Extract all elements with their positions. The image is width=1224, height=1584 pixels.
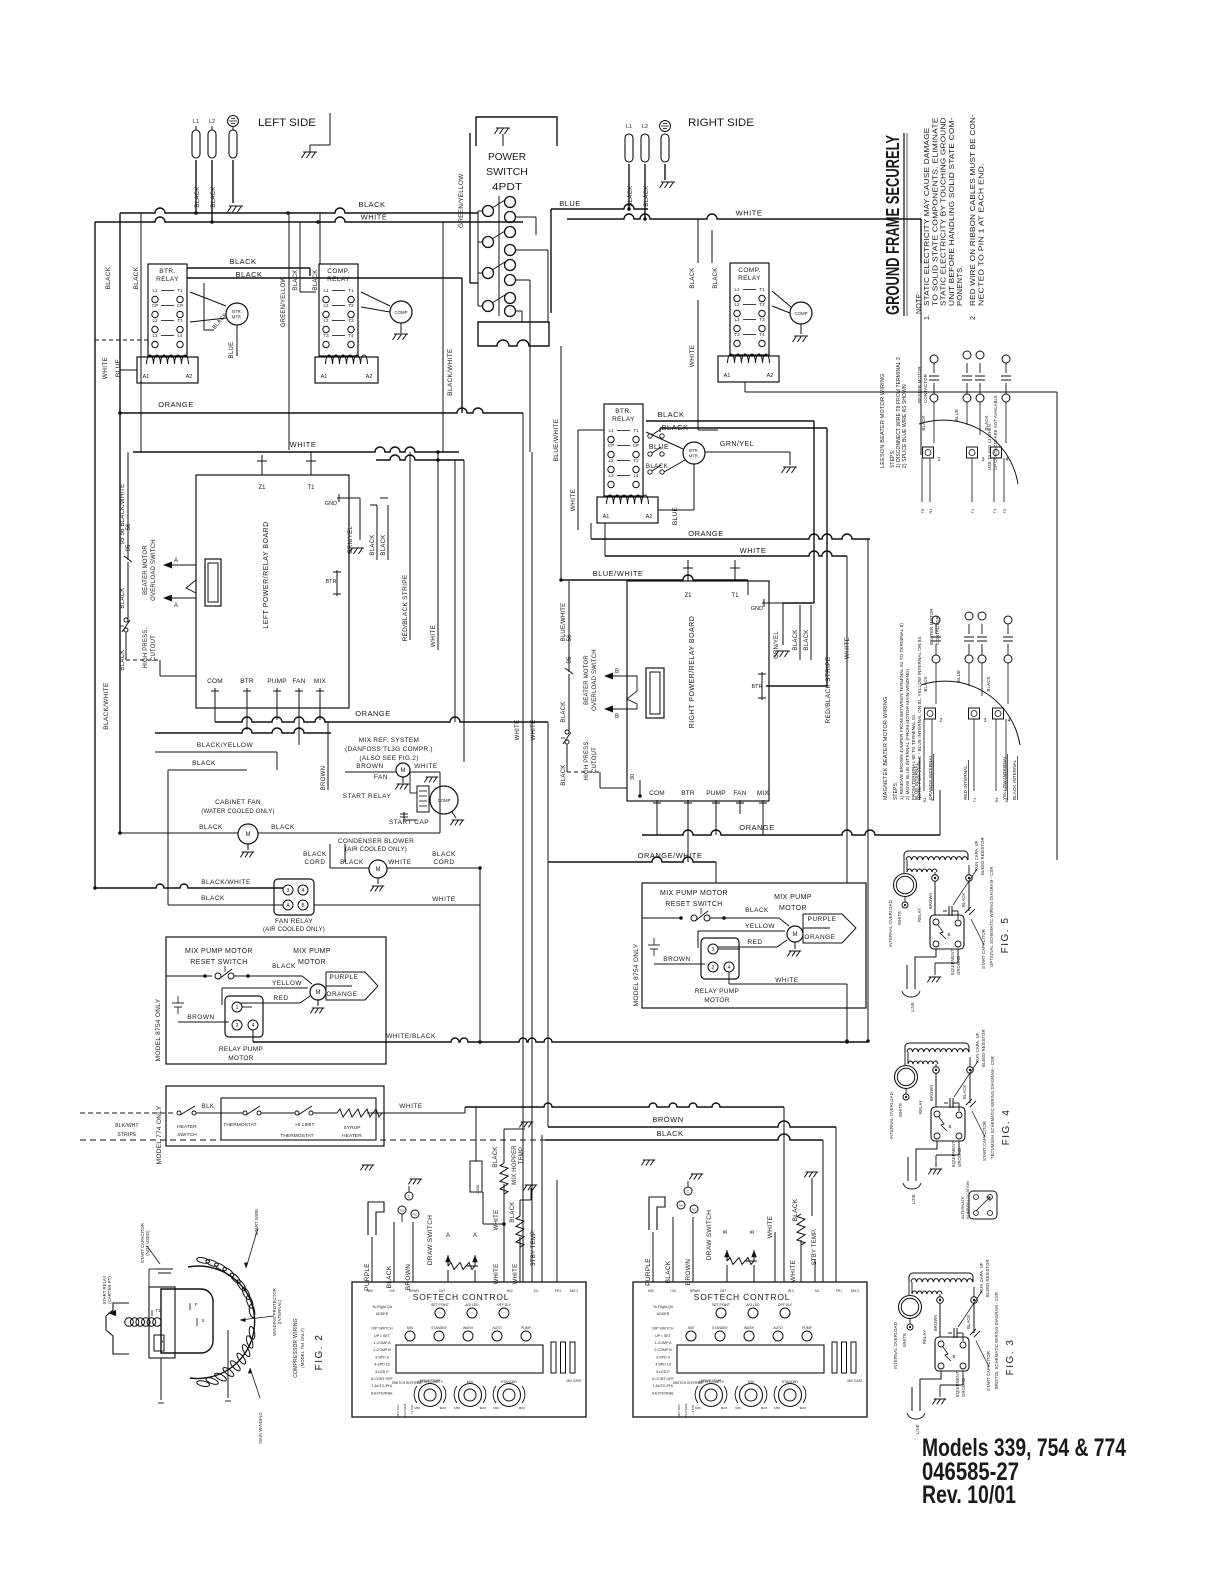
- svg-text:WASH: WASH: [744, 1326, 755, 1330]
- svg-text:L2: L2: [152, 318, 158, 323]
- svg-text:MAX: MAX: [480, 1406, 487, 1410]
- svg-text:1.: 1.: [924, 314, 931, 320]
- svg-text:30: 30: [630, 774, 636, 780]
- svg-text:BLUE: BLUE: [956, 670, 961, 682]
- high press cutout switch (left): [124, 618, 128, 622]
- fig4 leader start capacitor: [972, 1111, 985, 1137]
- svg-text:RESET SWITCH: RESET SWITCH: [190, 959, 248, 966]
- svg-text:DRAW SWITCH: DRAW SWITCH: [427, 1215, 434, 1265]
- fig5 white lead curve: [904, 907, 906, 909]
- svg-text:UNIT BEFORE HANDLING SOLID STA: UNIT BEFORE HANDLING SOLID STATE COM-: [949, 117, 956, 306]
- wire B arrows link: [613, 676, 637, 709]
- svg-text:WHITE: WHITE: [414, 763, 438, 770]
- wire extra feeds (left softech): [541, 1135, 543, 1282]
- ground terminal symbol (right supply): [660, 121, 671, 132]
- svg-text:BLACK: BLACK: [303, 851, 327, 858]
- svg-text:MTR.: MTR.: [689, 454, 699, 459]
- contactor arc (magnetek): [921, 681, 1020, 745]
- svg-text:CNT: CNT: [720, 1289, 727, 1293]
- svg-text:T5: T5: [1002, 508, 1007, 513]
- svg-text:C: C: [408, 1194, 411, 1199]
- svg-text:OUTSIDE: OUTSIDE: [403, 1403, 407, 1416]
- wire right bus verticals: [867, 539, 869, 1041]
- fig3 run winding coil band: [909, 1273, 973, 1282]
- svg-text:2: 2: [236, 1023, 239, 1029]
- wire BLACK top bus: [120, 208, 478, 213]
- svg-text:W.C: W.C: [507, 1289, 514, 1293]
- svg-text:PUMP: PUMP: [267, 678, 287, 685]
- svg-text:T2: T2: [348, 303, 354, 308]
- svg-text:5-LED P: 5-LED P: [375, 1370, 389, 1374]
- svg-text:MAX: MAX: [800, 1406, 807, 1410]
- svg-text:To-Flight QA: To-Flight QA: [653, 1305, 674, 1309]
- svg-text:3: 3: [712, 947, 715, 953]
- wire orange lower pair (left): [155, 728, 331, 733]
- svg-text:A1: A1: [724, 373, 731, 379]
- svg-text:(MODEL 754 ONLY): (MODEL 754 ONLY): [300, 1328, 305, 1368]
- wire red (right): [718, 946, 777, 948]
- wire overload drop (left): [127, 452, 129, 552]
- fig4 motor circle: [895, 1066, 918, 1089]
- contactor contact squares (magnetek): [925, 708, 936, 719]
- svg-text:W.C: W.C: [788, 1289, 795, 1293]
- wire orange/white: [548, 857, 716, 862]
- svg-text:RELAY: RELAY: [922, 1330, 927, 1344]
- svg-text:MIX INTL: MIX INTL: [396, 1403, 400, 1416]
- fig2 inner housing: [161, 1289, 213, 1353]
- fig4 run capacitor: [944, 1102, 948, 1104]
- contactor jumper wires (magnetek): [936, 663, 969, 674]
- svg-text:MIX HOPPER: MIX HOPPER: [512, 1145, 518, 1185]
- wire board outputs down: [214, 702, 216, 720]
- svg-text:L2: L2: [209, 119, 215, 125]
- ground (condenser blower): [377, 878, 379, 884]
- draw switch contacts (right): [684, 1187, 692, 1195]
- connector B arrows (right board ribbon): [604, 673, 613, 680]
- svg-text:START RELAY: START RELAY: [343, 793, 392, 800]
- fig4 brown lead: [935, 1073, 937, 1107]
- svg-text:BLACK: BLACK: [510, 1201, 516, 1222]
- svg-text:RED/BLACK STRIPE: RED/BLACK STRIPE: [402, 574, 409, 641]
- motor COMP (left): [390, 301, 412, 323]
- wire right board blacks: [799, 605, 801, 660]
- svg-text:BLACK: BLACK: [966, 1315, 971, 1329]
- fig4 white lead curve: [905, 1099, 907, 1101]
- svg-text:8-EXTERNAL: 8-EXTERNAL: [371, 1391, 393, 1395]
- svg-text:2) MOVE BLUE INTERNAL (FROM MO: 2) MOVE BLUE INTERNAL (FROM MOTOR MAIN W…: [905, 668, 910, 800]
- svg-text:4: 4: [252, 1023, 255, 1029]
- svg-text:MODEL 774 ONLY: MODEL 774 ONLY: [156, 1105, 163, 1164]
- svg-text:BLEED RESISTOR: BLEED RESISTOR: [980, 837, 985, 875]
- wire right L2 drop: [644, 164, 646, 219]
- svg-text:5-LED P: 5-LED P: [656, 1370, 670, 1374]
- svg-text:MIX: MIX: [688, 1326, 695, 1330]
- svg-text:SOFTECH CONTROL: SOFTECH CONTROL: [413, 1292, 510, 1302]
- ground (cabinet fan): [247, 844, 249, 850]
- svg-text:4: 4: [728, 965, 731, 971]
- overload switch symbol (right): [568, 664, 570, 672]
- svg-text:BROWN: BROWN: [187, 1014, 214, 1021]
- softech right LCD window: [677, 1345, 824, 1373]
- svg-text:MIX: MIX: [314, 678, 327, 685]
- svg-text:56: 56: [567, 634, 573, 641]
- svg-text:NO: NO: [400, 1209, 405, 1213]
- wire WHITE mid bus: [133, 447, 459, 452]
- contactor arc (leeson): [919, 420, 1018, 484]
- wire right cutout link: [566, 744, 568, 772]
- svg-text:NOTE:: NOTE:: [916, 291, 923, 314]
- svg-text:SWITCH: SWITCH: [486, 166, 528, 178]
- fig2 start relay coil spring: [125, 1318, 134, 1327]
- svg-text:3: 3: [982, 457, 985, 463]
- svg-text:GRN/YEL: GRN/YEL: [720, 441, 754, 448]
- power switch blade bar: [498, 196, 500, 316]
- svg-text:MIN: MIN: [414, 1406, 420, 1410]
- svg-text:To-Flight QA: To-Flight QA: [372, 1305, 393, 1309]
- wire A drops (right): [726, 1265, 728, 1282]
- svg-text:C: C: [687, 1189, 690, 1194]
- alternate number location box (fig4): [969, 1191, 997, 1219]
- svg-text:BTR: BTR: [326, 579, 337, 585]
- svg-text:8-EXTERNAL: 8-EXTERNAL: [652, 1391, 674, 1395]
- motor BTR MTR (left): [226, 303, 248, 325]
- svg-text:BLACK: BLACK: [120, 649, 126, 670]
- svg-text:A: A: [446, 1233, 450, 1239]
- svg-text:L1: L1: [626, 124, 632, 130]
- motor BTR MTR (right): [683, 442, 705, 464]
- wire red (left): [241, 1002, 300, 1004]
- connector A arrows (left board ribbon): [163, 562, 172, 569]
- svg-text:START CAPACITOR: START CAPACITOR: [981, 929, 986, 969]
- svg-text:UP = SET: UP = SET: [655, 1334, 672, 1338]
- fig4 start winding scallops: [908, 1061, 938, 1064]
- svg-text:R1: R1: [928, 508, 933, 514]
- svg-text:BLACK: BLACK: [340, 859, 364, 866]
- svg-text:ORANGE INTERNAL: ORANGE INTERNAL: [928, 754, 933, 800]
- svg-text:WHITE: WHITE: [432, 896, 456, 903]
- svg-text:OFF DLY: OFF DLY: [497, 1303, 512, 1307]
- svg-text:WHITE: WHITE: [290, 440, 317, 449]
- svg-text:MAIN WINDING: MAIN WINDING: [258, 1412, 263, 1443]
- resistor between A arrows (right): [726, 1250, 728, 1261]
- svg-text:2) SPLICE BLUE WIRE AS SHOWN: 2) SPLICE BLUE WIRE AS SHOWN: [902, 384, 908, 468]
- svg-text:1: 1: [236, 1005, 239, 1011]
- svg-text:POWER: POWER: [488, 151, 526, 163]
- svg-text:FAN: FAN: [374, 774, 388, 781]
- svg-text:A: A: [473, 1233, 477, 1239]
- svg-text:RED: RED: [273, 995, 288, 1002]
- svg-text:BLACK: BLACK: [644, 185, 650, 206]
- svg-text:BLACK: BLACK: [646, 464, 668, 470]
- wire black/yellow: [155, 751, 277, 753]
- wire green/yellow mid drop: [288, 213, 290, 450]
- svg-text:BLACK: BLACK: [358, 200, 385, 209]
- svg-text:B: B: [948, 1124, 951, 1129]
- wire relay 3 to red: [718, 948, 740, 950]
- svg-text:UP = SET: UP = SET: [374, 1334, 391, 1338]
- svg-text:BLACK/WHITE: BLACK/WHITE: [201, 879, 251, 886]
- wire right gnd drop: [664, 164, 666, 180]
- svg-text:BLEED RESISTOR: BLEED RESISTOR: [985, 1259, 990, 1297]
- svg-text:GREEN/YELLOW: GREEN/YELLOW: [458, 173, 465, 228]
- svg-text:BLACK: BLACK: [657, 410, 684, 419]
- fig3 leader run capacitor: [958, 1291, 982, 1327]
- wire BLUE right bus: [551, 204, 648, 209]
- wire blower cord drop: [344, 844, 346, 862]
- svg-text:A2: A2: [767, 373, 774, 379]
- svg-text:L2: L2: [608, 458, 614, 463]
- fig2 main winding coil (lower): [196, 1380, 210, 1388]
- svg-text:LINE: LINE: [911, 1194, 916, 1204]
- wire BROWN bottom bus: [548, 1121, 836, 1127]
- svg-text:3: 3: [984, 718, 987, 724]
- ground (power switch frame): [495, 128, 511, 134]
- wire ORANGE right bus: [591, 534, 870, 539]
- svg-text:L1: L1: [152, 288, 158, 293]
- softech right knobs: [700, 1384, 723, 1407]
- wire white fan relay out: [314, 904, 480, 906]
- svg-text:A2: A2: [646, 514, 653, 520]
- svg-text:RESET SWITCH: RESET SWITCH: [665, 901, 723, 908]
- wire condenser vertical: [439, 790, 441, 833]
- wire right comp vertical: [697, 300, 699, 430]
- svg-text:BLACK: BLACK: [561, 764, 567, 785]
- svg-text:FAN: FAN: [292, 678, 305, 685]
- fuse F2 (left L2): [208, 130, 216, 158]
- svg-text:B: B: [952, 1354, 955, 1359]
- svg-text:M: M: [793, 932, 798, 938]
- fig2 start capacitor: [156, 1268, 173, 1270]
- svg-text:CONTACTOR: CONTACTOR: [923, 373, 928, 403]
- svg-text:RIGHT POWER/RELAY BOARD: RIGHT POWER/RELAY BOARD: [689, 616, 696, 729]
- wire relay 1 to red: [242, 1006, 252, 1008]
- wire white down (left): [503, 1184, 505, 1282]
- power switch bottom box: [478, 322, 549, 346]
- softech left LCD window: [396, 1345, 543, 1373]
- condenser blower motor M: [369, 860, 387, 878]
- svg-text:FR1: FR1: [555, 1289, 561, 1293]
- ground (right btr): [782, 467, 798, 473]
- svg-text:START CAPACITOR: START CAPACITOR: [982, 1121, 987, 1161]
- svg-text:MOTOR: MOTOR: [228, 1055, 254, 1062]
- fuse F3 (left gnd lead): [229, 130, 237, 158]
- thermistor MIX HOPPER TEMP (left): [500, 1163, 508, 1194]
- svg-text:THERMOSTAT: THERMOSTAT: [223, 1122, 256, 1128]
- svg-text:COM: COM: [649, 790, 665, 797]
- ground (right draw sw 2): [689, 1174, 703, 1179]
- svg-text:CONDENSER BLOWER: CONDENSER BLOWER: [338, 838, 414, 845]
- svg-text:MIX: MIX: [757, 790, 770, 797]
- 240K resistor box (left): [470, 1161, 482, 1192]
- svg-text:ADDER: ADDER: [376, 1312, 389, 1316]
- svg-text:7-AUTO-PHL: 7-AUTO-PHL: [371, 1384, 392, 1388]
- contactor capacitor bars (magnetek): [935, 624, 937, 634]
- fig5 equipment ground wire: [934, 963, 936, 975]
- svg-text:MIX REF. SYSTEM: MIX REF. SYSTEM: [359, 737, 419, 744]
- svg-text:BROWN: BROWN: [321, 766, 327, 791]
- contactor capacitor bars (leeson): [933, 363, 935, 373]
- svg-text:TECUMSEH SCHEMATIC WIRING DIAG: TECUMSEH SCHEMATIC WIRING DIAGRAM - CSR: [990, 1056, 995, 1159]
- svg-text:WHITE: WHITE: [844, 636, 851, 659]
- wire white right btr: [577, 430, 579, 530]
- ground (left draw sw 2): [408, 1179, 422, 1184]
- svg-text:T4: T4: [992, 508, 997, 513]
- svg-text:RELAY: RELAY: [917, 908, 922, 922]
- svg-text:INTERNAL OVERLOAD: INTERNAL OVERLOAD: [888, 900, 893, 947]
- svg-text:RELAY: RELAY: [327, 276, 350, 283]
- svg-text:ORANGE: ORANGE: [739, 823, 775, 832]
- svg-text:BLACK: BLACK: [199, 824, 223, 831]
- svg-text:(CARTER PT): (CARTER PT): [107, 1276, 112, 1304]
- svg-text:T1: T1: [972, 797, 977, 802]
- svg-text:SOFTECH CONTROL: SOFTECH CONTROL: [694, 1292, 791, 1302]
- resistor between A arrows (left): [447, 1255, 449, 1266]
- svg-text:BLUE: BLUE: [115, 359, 122, 378]
- fig4 motor bottom terminal: [905, 1089, 907, 1095]
- svg-text:BLACK: BLACK: [962, 1085, 967, 1099]
- wire btr mtr drop: [236, 325, 238, 356]
- svg-text:BLACK: BLACK: [105, 266, 112, 289]
- wire grn/yel to board gnd: [359, 498, 361, 540]
- svg-text:RELAY: RELAY: [156, 276, 179, 283]
- svg-text:BTR.: BTR.: [689, 448, 699, 453]
- svg-text:RED: RED: [747, 939, 762, 946]
- fig2 wire down 1: [160, 1358, 162, 1400]
- svg-text:BEATER MOTOR: BEATER MOTOR: [917, 366, 922, 403]
- svg-text:BLUE: BLUE: [954, 409, 959, 421]
- stby thermistor (left): [516, 1216, 524, 1247]
- wire orange below right board: [642, 830, 940, 835]
- svg-text:BLUE/WHITE: BLUE/WHITE: [553, 418, 560, 461]
- fig3 motor circle: [899, 1296, 922, 1319]
- svg-text:84: 84: [994, 797, 999, 802]
- svg-text:HIGH PRESS.: HIGH PRESS.: [143, 627, 149, 668]
- fig5 leader start capacitor: [971, 919, 984, 945]
- svg-text:6-CONT OFF: 6-CONT OFF: [371, 1377, 393, 1381]
- svg-text:BLUE: BLUE: [672, 507, 679, 526]
- svg-text:BLACK: BLACK: [229, 257, 256, 266]
- heater switch: [80, 1112, 176, 1114]
- svg-text:T1: T1: [177, 288, 183, 293]
- svg-text:FIG. 3: FIG. 3: [1005, 1339, 1016, 1376]
- svg-text:BTR: BTR: [752, 684, 763, 690]
- fig3 start capacitor marks: [970, 1329, 980, 1337]
- fig5 run winding coil band: [904, 851, 968, 860]
- svg-text:M: M: [316, 990, 321, 996]
- svg-text:GND: GND: [751, 606, 763, 612]
- svg-text:B: B: [160, 1339, 163, 1344]
- reset switch (left): [166, 975, 212, 977]
- svg-text:L3: L3: [323, 318, 329, 323]
- svg-text:A2: A2: [186, 374, 193, 380]
- svg-text:STATIC ELECTRICITY BY TOUCHING: STATIC ELECTRICITY BY TOUCHING GROUND: [941, 117, 948, 306]
- svg-text:BLACK: BLACK: [195, 186, 201, 207]
- svg-text:95: 95: [567, 656, 573, 663]
- svg-text:2: 2: [712, 965, 715, 971]
- wire black mix ref: [168, 769, 247, 771]
- wire black to motor (left): [250, 975, 302, 977]
- svg-text:BEATER MOTOR: BEATER MOTOR: [584, 655, 590, 705]
- junction dots top bus: [194, 211, 198, 215]
- svg-text:H.B: H.B: [389, 1289, 394, 1293]
- svg-text:RED WIRE ON RIBBON CABLES MUST: RED WIRE ON RIBBON CABLES MUST BE CON-: [970, 113, 977, 306]
- module SOFTECH CONTROL (left): [352, 1282, 586, 1417]
- svg-text:ORANGE: ORANGE: [158, 400, 194, 409]
- wire brown (right): [654, 963, 705, 965]
- fig5 start winding scallops: [907, 869, 937, 872]
- svg-text:4-SPD 10: 4-SPD 10: [655, 1363, 671, 1367]
- svg-text:GROUND: GROUND: [961, 1378, 966, 1397]
- relay RELAY PUMP MOTOR (right): [701, 938, 739, 979]
- wire white tall (right): [774, 1232, 776, 1282]
- svg-text:L4: L4: [177, 333, 183, 338]
- contactor contact squares (leeson): [923, 447, 934, 458]
- svg-text:MODEL 8754 ONLY: MODEL 8754 ONLY: [155, 998, 162, 1061]
- svg-text:95: 95: [126, 544, 132, 551]
- motor COMP (right): [790, 302, 812, 324]
- svg-text:7-AUTO-PHL: 7-AUTO-PHL: [652, 1384, 673, 1388]
- svg-text:Z1: Z1: [684, 593, 692, 599]
- svg-text:MIX GATE: MIX GATE: [848, 1379, 863, 1383]
- svg-text:WHITE: WHITE: [767, 1215, 774, 1238]
- wire orange/white into box (right): [642, 917, 680, 919]
- module SOFTECH CONTROL (right): [633, 1282, 867, 1417]
- wire right L1 drop: [628, 164, 630, 208]
- svg-text:BLACK: BLACK: [313, 269, 319, 290]
- svg-text:FR1: FR1: [836, 1289, 842, 1293]
- svg-text:MIN: MIN: [493, 1406, 499, 1410]
- svg-text:BLACK: BLACK: [272, 963, 296, 970]
- wire white mid bus lower pair: [376, 455, 464, 460]
- svg-text:RED/BLACK STRIPE: RED/BLACK STRIPE: [825, 656, 832, 723]
- wire switch left feeds: [478, 210, 482, 212]
- svg-text:H.B: H.B: [670, 1289, 675, 1293]
- svg-text:MOTOR: MOTOR: [704, 997, 730, 1004]
- svg-text:WHITE: WHITE: [515, 720, 521, 741]
- svg-text:COMP: COMP: [395, 310, 408, 315]
- board RIGHT POWER/RELAY BOARD: [627, 581, 769, 801]
- wire comp relay drop 1: [299, 222, 301, 292]
- svg-text:BROWN: BROWN: [663, 956, 690, 963]
- fig3 white lead curve: [909, 1329, 911, 1331]
- svg-text:WHITE: WHITE: [388, 859, 412, 866]
- wire cutout to board: [125, 632, 127, 660]
- capacitor (right mix pump): [648, 944, 660, 946]
- A arrows (left softech): [445, 1255, 451, 1262]
- fig2 leader start capacitor: [147, 1246, 160, 1264]
- fig3 brown lead: [939, 1303, 941, 1337]
- svg-text:GRN/YEL: GRN/YEL: [774, 631, 780, 659]
- fuse F1 (left L1): [192, 130, 200, 158]
- svg-text:SWITCH: SWITCH: [177, 1132, 197, 1138]
- svg-text:MTR.: MTR.: [232, 315, 242, 320]
- wire BLUE/WHITE right bus: [559, 578, 563, 582]
- svg-text:WHITE: WHITE: [898, 1103, 903, 1117]
- svg-text:B: B: [947, 932, 950, 937]
- ground (right comp): [800, 324, 802, 334]
- wire white (right mix pump): [728, 972, 730, 984]
- svg-text:BLACK/YELLOW: BLACK/YELLOW: [197, 742, 254, 749]
- svg-text:FAN RELAY: FAN RELAY: [275, 918, 313, 925]
- contactor leads down (leeson): [921, 458, 923, 502]
- fig4 relay box: [931, 1107, 965, 1141]
- svg-text:56: 56: [126, 523, 132, 530]
- svg-text:MIN: MIN: [774, 1406, 780, 1410]
- svg-text:OPTIONAL SCHEMATIC WIRING DIAG: OPTIONAL SCHEMATIC WIRING DIAGRAM - CSR: [989, 867, 994, 967]
- wire 240K to node: [482, 1192, 484, 1224]
- power switch blades: [492, 200, 505, 208]
- svg-text:PURPLE: PURPLE: [364, 1263, 371, 1291]
